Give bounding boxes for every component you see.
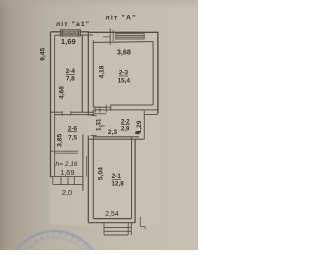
- window W1 (annex): [60, 30, 80, 36]
- outer corner hook bottom-right: [139, 217, 141, 227]
- dim tick beside 1,31: [101, 125, 105, 127]
- svg-text:3,68: 3,68: [117, 47, 131, 56]
- door jamb ticks on main left wall (1,31 door): [91, 116, 97, 136]
- top outer wall: [51, 31, 90, 33]
- svg-text:2-6: 2-6: [68, 125, 78, 132]
- door ticks in that wall: [61, 111, 63, 116]
- svg-text:15,4: 15,4: [118, 78, 131, 85]
- right wall of room 2-1: [131, 137, 133, 219]
- svg-text:1,29: 1,29: [136, 120, 143, 133]
- svg-text:5,04: 5,04: [98, 167, 105, 180]
- svg-text:3,85: 3,85: [57, 134, 64, 147]
- window W2 (main): [116, 34, 144, 39]
- svg-text:2,54: 2,54: [105, 211, 119, 218]
- main left wall inner x=93.3: [92, 40, 94, 218]
- svg-text:и: и: [59, 231, 62, 236]
- svg-text:літ "А": літ "А": [105, 13, 136, 21]
- wall between 2-6 and tambour: [51, 150, 79, 152]
- paper background: [0, 0, 198, 250]
- middle band: bottom wall of 2-3 / top of 2-2: [93, 106, 111, 108]
- svg-text:4,68: 4,68: [58, 86, 65, 99]
- main left wall outer x=88.3: [87, 32, 89, 222]
- right wall upper (room 2-3): [157, 32, 159, 114]
- svg-text:2-3: 2-3: [119, 70, 129, 77]
- tambour steps (left porch): [51, 177, 83, 185]
- svg-text:2,3: 2,3: [108, 129, 118, 136]
- main top inner wall: [93, 41, 153, 44]
- svg-text:1,69: 1,69: [60, 168, 74, 177]
- window W2 jamb tick: [109, 29, 111, 45]
- bottom wall of 2-2 band: [93, 136, 139, 138]
- svg-text:2,0: 2,0: [62, 188, 72, 197]
- svg-text:12,8: 12,8: [111, 180, 124, 187]
- tambour right wall: [82, 135, 84, 191]
- svg-text:4,18: 4,18: [99, 65, 106, 78]
- svg-text:2-4: 2-4: [66, 68, 76, 75]
- wall between 2-4 and 2-6: [51, 111, 63, 113]
- svg-text:7,8: 7,8: [66, 75, 75, 82]
- bottom entrance steps: [104, 223, 131, 235]
- svg-text:літ "а1": літ "а1": [56, 20, 90, 28]
- small dark mark near 2-2 bottom wall: [135, 132, 139, 135]
- bottom wall of building: [93, 218, 131, 220]
- annex top inner wall: [55, 34, 61, 36]
- svg-text:1,31: 1,31: [96, 118, 103, 131]
- svg-text:7,5: 7,5: [68, 134, 77, 141]
- svg-text:1,69: 1,69: [61, 37, 76, 46]
- svg-text:2-1: 2-1: [112, 173, 122, 180]
- threshold ticks: [95, 105, 106, 113]
- wall right of 2-2: [143, 110, 145, 139]
- sill line left of W2: [103, 36, 110, 38]
- annex left wall outer: [50, 32, 52, 178]
- annex right wall: [81, 35, 83, 112]
- svg-text:9,45: 9,45: [39, 48, 46, 61]
- annex left wall inner: [54, 35, 56, 176]
- svg-text:2,9: 2,9: [121, 125, 130, 132]
- jog below right wall: [144, 114, 158, 116]
